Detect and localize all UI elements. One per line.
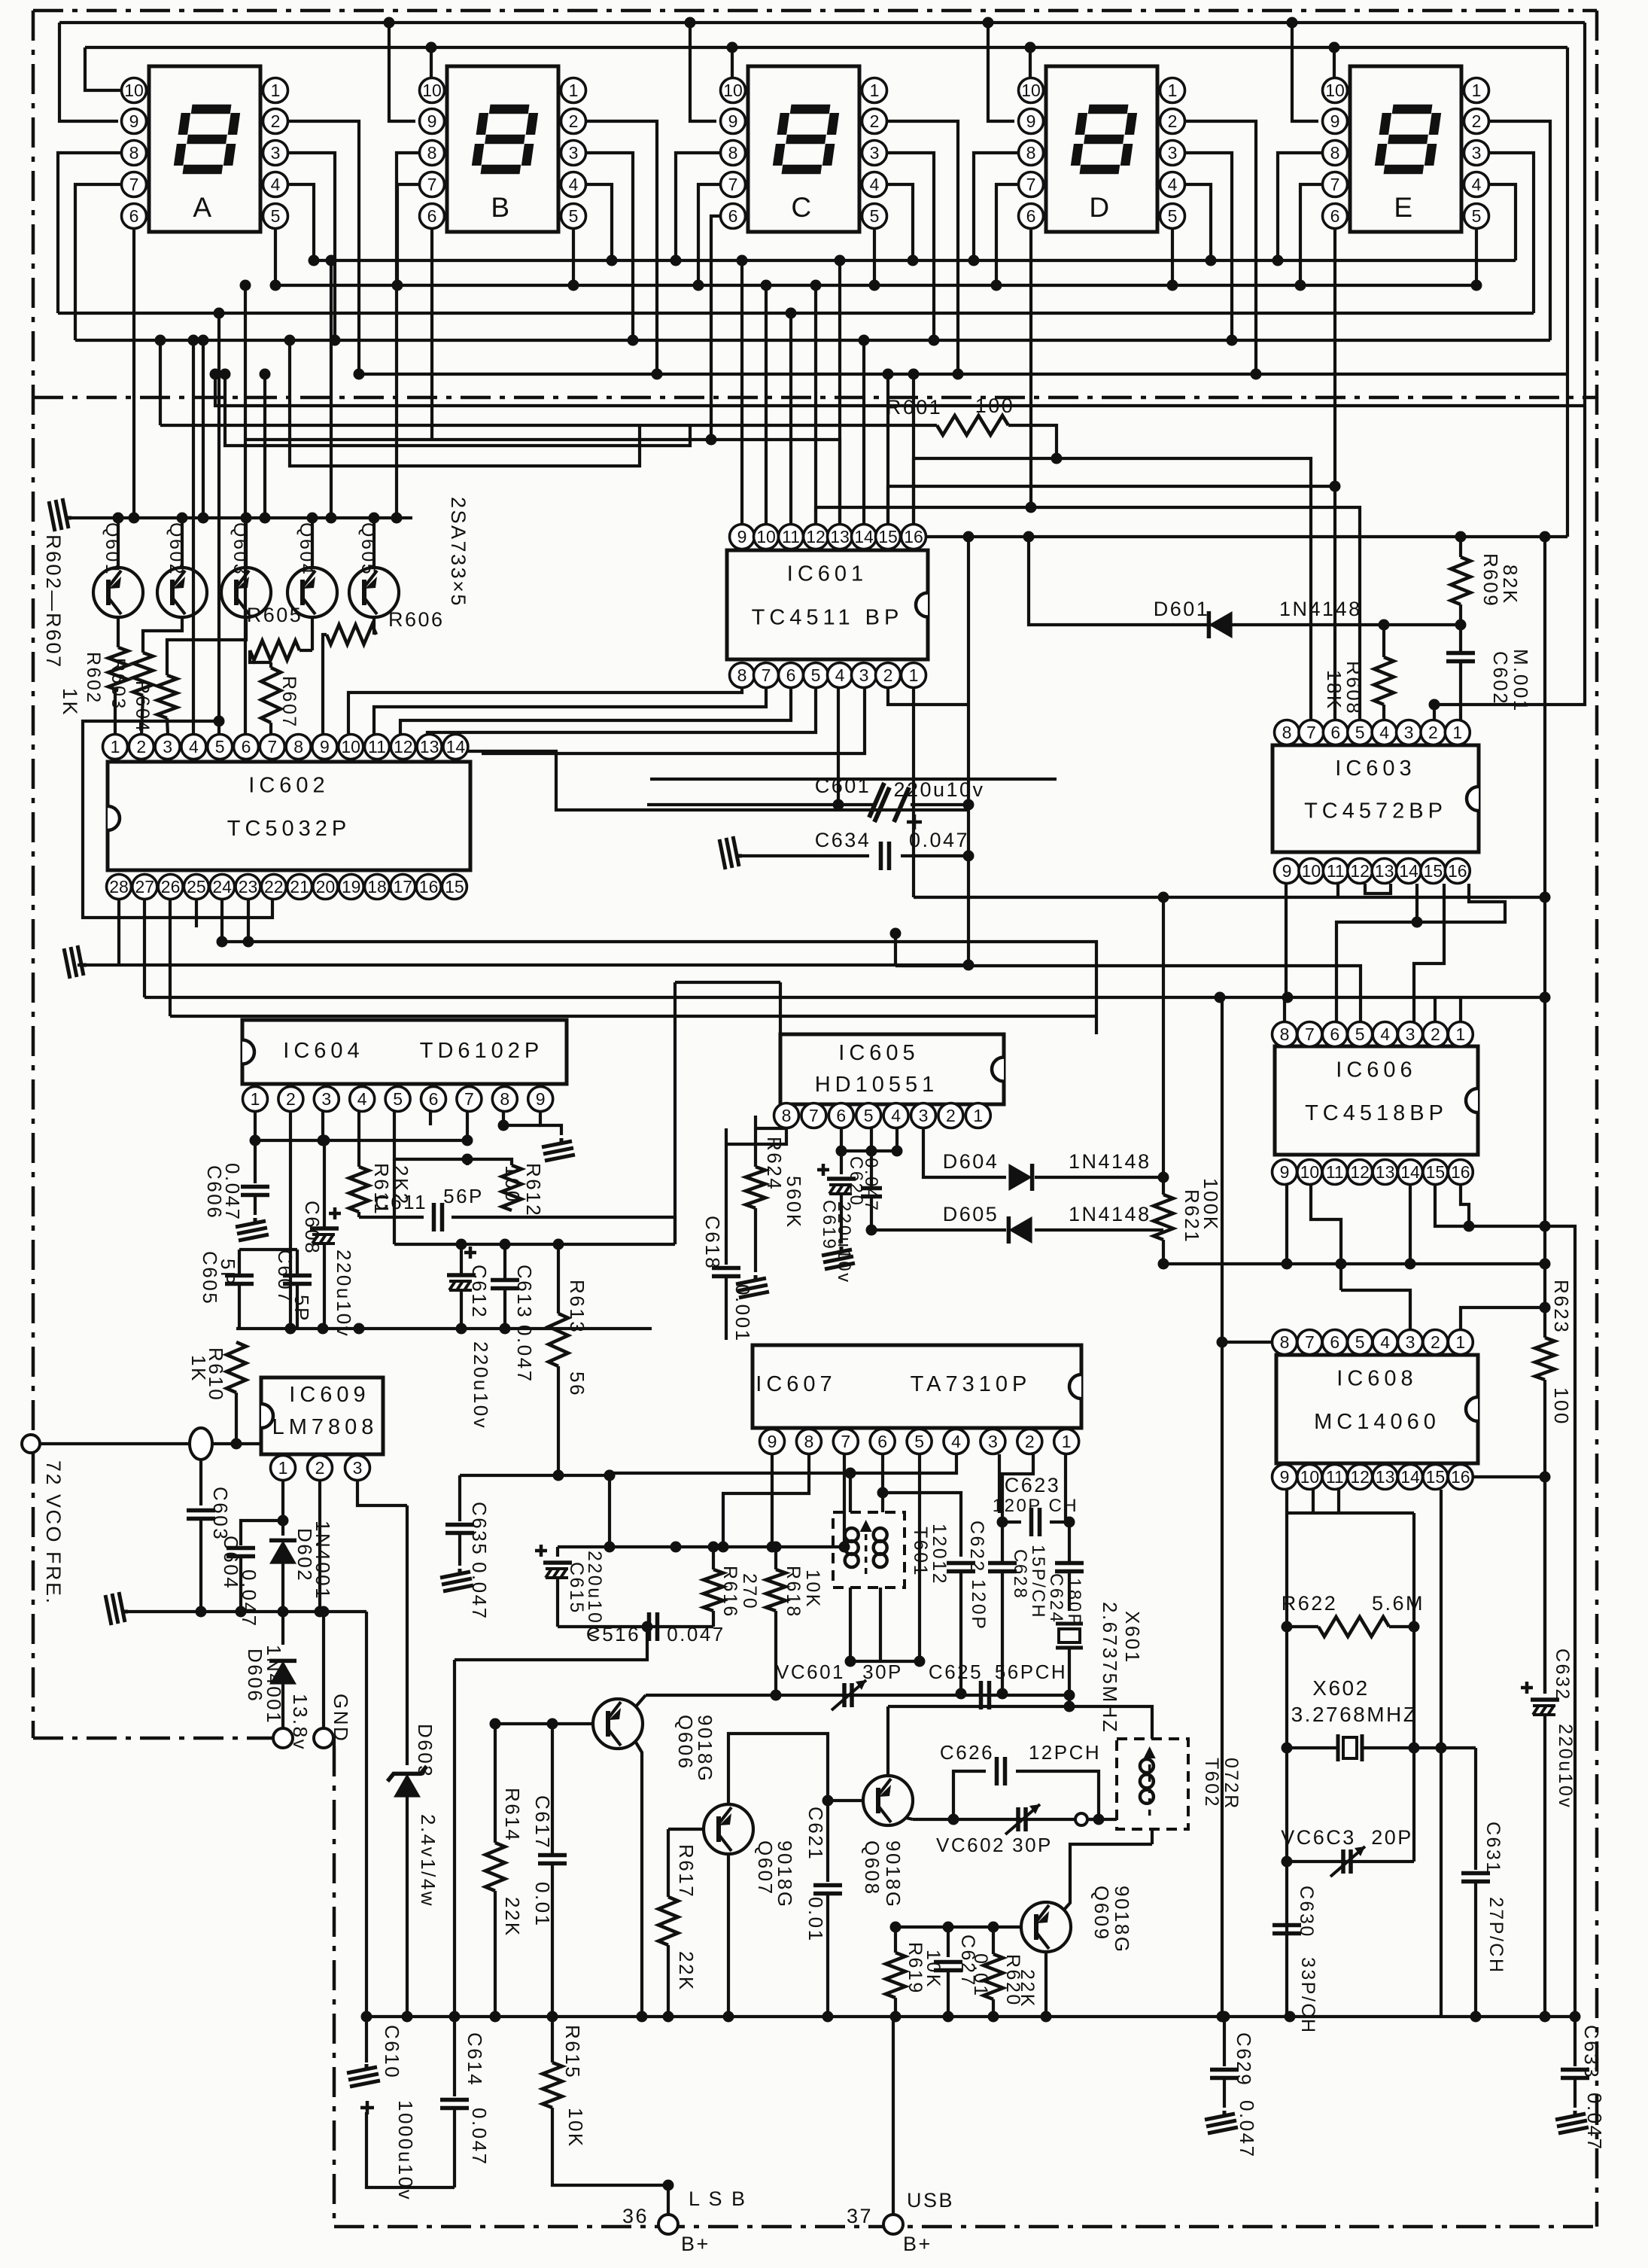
wire bus y452 [75,339,1550,342]
wire pin1 drop [254,1112,257,1183]
junction R616 top [708,1542,719,1553]
wire y592 run [225,374,690,446]
wire C632 bot [1543,1715,1546,2017]
junction y2055 x810b [604,1542,616,1553]
wire IC606 p2 up [1434,998,1437,1021]
junction y1192 x2053 [1540,892,1551,903]
junction R613 top [553,1239,564,1250]
svg-text:R602—R607: R602—R607 [42,534,65,669]
svg-text:15: 15 [1424,861,1443,881]
svg-text:10: 10 [723,81,743,100]
svg-text:28: 28 [109,877,129,897]
svg-text:5P: 5P [290,1295,313,1323]
IC U IC607 [753,1345,1081,1428]
svg-text:12PCH: 12PCH [1029,1741,1101,1764]
junction bus x2093 [1570,2011,1581,2023]
svg-text:13: 13 [1375,861,1394,881]
junction IC601 feed x1116 [835,255,846,266]
resistor R607 [261,668,281,723]
svg-text:6: 6 [1330,1024,1339,1044]
wire R605 join [299,649,312,652]
svg-text:C628: C628 [1010,1549,1030,1600]
svg-text:10: 10 [1021,81,1041,100]
svg-text:8: 8 [427,143,437,163]
wire C618 bot [725,1277,728,1340]
wire C633 drop [1574,2017,1577,2066]
svg-text:IC604: IC604 [283,1039,363,1063]
resistor R614 [485,1843,505,1891]
capacitor C632 [1531,1697,1559,1702]
resistor R610 [227,1342,246,1393]
svg-text:9: 9 [1330,111,1340,131]
resistor R616 [704,1569,723,1611]
wire R601 left [160,424,937,427]
svg-text:4: 4 [357,1089,367,1109]
svg-text:6: 6 [1330,723,1340,742]
capacitor C516 [647,1612,652,1641]
IC607 pin 5 [907,1429,932,1454]
svg-text:R602: R602 [83,652,104,705]
svg-text:2: 2 [286,1089,296,1109]
wire IC607 p3 drop [998,1454,1001,1513]
svg-text:3: 3 [988,1432,998,1451]
junction D604 R621 [1158,1172,1169,1183]
wire R603 to pin2 [141,696,143,735]
wire pin5 drop [870,1128,873,1188]
svg-text:100K: 100K [1200,1178,1222,1231]
svg-text:10: 10 [422,81,442,100]
svg-text:3: 3 [919,1106,929,1125]
junction D4 bus [1206,255,1217,266]
svg-text:14: 14 [1400,1467,1420,1487]
junction bus x658 [490,2011,501,2023]
wire C621 top [826,1801,829,1882]
svg-text:5: 5 [870,206,880,226]
svg-text:10K: 10K [802,1569,823,1609]
junction rail feed top x352 [260,369,271,380]
junction C627 top [943,1922,954,1933]
junction rail1 E [1287,17,1298,29]
IC U IC602 [108,762,470,870]
junction IC601 feed x1148 [859,335,870,346]
transistor Q606 [593,1699,643,1749]
svg-text:C631: C631 [1482,1822,1504,1874]
svg-text:220u10v: 220u10v [1555,1724,1576,1809]
svg-text:14: 14 [854,527,874,546]
junction y1960 x742 [553,1470,564,1481]
svg-text:14: 14 [1400,1162,1420,1182]
svg-text:C608: C608 [301,1201,324,1255]
junction R601 y609 [1051,453,1063,464]
wire IC606 p14 drop [1409,1185,1412,1264]
IC609 pin 1 [271,1456,296,1481]
IC605 pin 6 [829,1104,853,1128]
wire R614 bot [494,1891,497,2017]
wire R618 bot [774,1611,777,1648]
svg-text:23: 23 [239,877,258,897]
svg-text:7: 7 [841,1432,850,1451]
wire C612 top [460,1244,463,1274]
border outer right [1595,11,1599,2227]
svg-text:10: 10 [1300,1162,1320,1182]
junction y1192 x1546 [1158,892,1169,903]
junction rail2 D [1025,42,1036,53]
wire R624 link [756,1127,786,1130]
wire y2205 line [455,1627,647,1660]
junction pin1 2020 [278,1515,289,1527]
junction GND y2141 [318,1606,330,1618]
junction IC601 feed x1084 [810,280,822,291]
diode D604 [1008,1164,1032,1191]
junction y1765 x671 [500,1323,511,1335]
junction y1679 x1874 [1405,1259,1416,1270]
wire E pin5 drop [1475,228,1478,285]
junction C623 left [997,1517,1008,1528]
junction C8 bus [670,255,682,266]
IC602 notch [108,806,120,830]
svg-text:5: 5 [1472,206,1482,226]
wire D pin5 drop [1171,228,1174,285]
junction y619 left [284,335,296,346]
wire C620 bot [870,1197,873,1230]
svg-text:E: E [1394,192,1414,223]
wire x2053 mid [1543,1380,1546,1694]
wire B pin9 feed [389,23,415,121]
wire y646 to IC603 pin6 [888,485,1335,488]
junction y1515 x429 [318,1135,329,1146]
wire R608 bottom [1382,705,1385,720]
capacitor C620 [861,1186,882,1191]
wire A pin9 feed [59,23,118,121]
wire IC607 p7 drop [843,1454,846,1547]
junction bus x1260 [943,2011,954,2023]
capacitor C626 [995,1757,999,1785]
capacitor C603 [187,1508,215,1513]
junction IC601 feed x1214 [908,369,920,380]
svg-text:100: 100 [975,394,1015,417]
resistor R605 [250,641,299,660]
capacitor C607 [283,1274,312,1278]
svg-text:IC601: IC601 [787,562,868,586]
IC607 pin 4 [944,1429,968,1454]
wire D pin4 run [1184,184,1211,260]
junction rail feed x270 [198,513,209,524]
svg-text:22: 22 [264,877,284,897]
wire Q608 top lead [886,1706,889,1776]
junction D6 [1026,502,1037,513]
svg-text:16: 16 [419,877,439,897]
wire Q608 collector [906,1818,913,1819]
svg-text:9: 9 [129,111,139,131]
svg-text:0.01: 0.01 [804,1897,827,1943]
wire x604 drop [453,1660,456,2017]
junction rail Q601 [113,513,124,524]
wire y2161 [558,1625,713,1628]
wire C613 bot [503,1289,506,1329]
svg-text:36: 36 [622,2205,649,2227]
svg-text:IC609: IC609 [289,1383,369,1407]
ground C610 [347,2064,380,2087]
svg-text:13: 13 [830,527,850,546]
wire pin8 drop [726,1128,786,1144]
svg-text:0.047: 0.047 [1583,2093,1606,2151]
wire B pin5 drop [572,228,575,285]
svg-text:100: 100 [1550,1387,1573,1426]
wire IC608 p9 drop [1285,1490,1288,2017]
svg-text:33P/CH: 33P/CH [1297,1957,1318,2035]
wire IC608 p8 left [1222,1341,1272,1344]
svg-text:Q605: Q605 [357,522,379,576]
svg-text:6: 6 [1330,1332,1339,1352]
wire C634 line [742,854,869,857]
terminal 36 LSB [658,2215,678,2234]
junction rail1 C [685,17,696,29]
svg-text:0.047: 0.047 [221,1163,244,1222]
junction y1960 x810 [604,1470,616,1481]
svg-text:1: 1 [909,665,919,685]
svg-text:0.047: 0.047 [667,1623,725,1645]
junction B7 bus [392,280,403,291]
junction X602 left [1282,1743,1293,1754]
wire pin25 drop [195,899,198,927]
svg-text:1N4148: 1N4148 [1069,1150,1151,1173]
resistor R609 [1451,557,1470,604]
junction bus x1714 [1285,2011,1296,2023]
svg-text:L S B: L S B [689,2187,747,2210]
junction R622 right [1409,1621,1420,1633]
wire IC607 p6 drop [881,1454,884,1512]
wire C pin4 run [886,184,913,260]
svg-text:10: 10 [1302,861,1321,881]
wire D602 top [281,1521,284,1536]
wire A pin5 drop [274,228,277,285]
svg-text:2: 2 [946,1106,956,1125]
resistor R608 [1374,657,1394,705]
svg-text:3: 3 [163,737,172,757]
junction bus x1961 [1470,2011,1482,2023]
wire C pin2 run [886,121,958,374]
wire C601 line a [647,803,873,806]
border lower-left jog vertical [333,1746,336,2227]
wire C615 bot [556,1578,559,1627]
svg-text:TC4511 BP: TC4511 BP [752,606,904,630]
wire VC603 line [1287,1860,1414,1863]
svg-text:IC607: IC607 [756,1372,836,1396]
junction B3 bus [628,335,639,346]
svg-text:3.2768MHZ: 3.2768MHZ [1291,1703,1418,1726]
wire GND up [322,1612,325,1728]
svg-text:1N4148: 1N4148 [1069,1203,1151,1225]
svg-text:7: 7 [1305,1024,1315,1044]
svg-text:22K: 22K [1017,1969,1038,2008]
capacitor C622 [947,1561,975,1566]
svg-text:4: 4 [835,665,845,685]
wire R620 top [992,1927,995,1954]
wire pin3 drop [923,1128,1006,1177]
wire C629 drop [1223,2017,1226,2066]
junction y1765 x477 [354,1323,365,1335]
svg-text:C635: C635 [468,1502,491,1556]
junction y539 left [210,369,221,380]
junction C6 [706,434,717,446]
junction y1653 x671 [500,1239,511,1250]
svg-text:R618: R618 [783,1566,804,1618]
IC609 pin 2 [308,1456,333,1481]
svg-text:D603: D603 [414,1724,436,1778]
svg-text:3: 3 [1472,143,1482,163]
svg-text:11: 11 [1327,861,1345,881]
junction bus x604 [449,2011,461,2023]
junction y1529 x1192 [892,1146,903,1157]
svg-text:24: 24 [212,877,232,897]
wire R622 right [1389,1625,1414,1628]
svg-text:Q608: Q608 [861,1840,883,1896]
resistor R623 [1535,1338,1555,1380]
junction B2 bus [652,369,663,380]
wire IC601 feed x986 [740,260,743,525]
IC605 pin 1 [965,1104,990,1128]
svg-text:0.047: 0.047 [513,1325,536,1384]
wire Q605 emitter [372,518,376,568]
wire LSB up [667,2185,670,2215]
junction bus x968 [723,2011,734,2023]
wire B pin3 run [585,153,633,340]
wire Q606 collector [636,1695,646,1706]
junction IC602 feed x326 [240,280,251,291]
IC605 pin 2 [938,1104,963,1128]
resistor R619 [886,1953,905,1998]
svg-text:R605: R605 [247,604,303,626]
wire C624 mid [1068,1522,1071,1563]
IC607 pin 2 [1017,1429,1042,1454]
junction R622 left [1282,1621,1293,1633]
trimmer VC601 [842,1683,847,1707]
svg-text:15: 15 [1426,1467,1446,1487]
wire D pin6 drop [1029,228,1032,507]
capacitor C606 [241,1185,269,1189]
svg-text:2: 2 [271,111,281,131]
wire R613 bot [557,1366,560,1400]
wire T601 left bot [849,1588,852,1661]
wire E pin10 feed [1333,47,1336,78]
junction IC601 feed x986 [737,255,748,266]
svg-text:7: 7 [728,175,738,194]
trimmer VC603 [1341,1849,1345,1874]
wire R602 to pin1 [115,690,118,735]
wire pin23 drop [247,899,250,942]
junction pin24 [217,936,228,948]
junction y713 x1287 [963,531,975,543]
junction rail feed top x440 [326,255,337,266]
feedthrough oval [190,1428,212,1460]
svg-text:7: 7 [129,175,139,194]
wire top rail 1 [59,21,1585,24]
svg-text:14: 14 [446,737,466,757]
wire D601 line [1029,537,1461,625]
junction R615 LSB [663,2180,674,2191]
wire right margin vertical 2 [1566,47,1569,537]
junction D7 bus [991,280,1002,291]
svg-text:1: 1 [1062,1432,1072,1451]
IC609 pin 3 [345,1456,370,1481]
svg-text:9018G: 9018G [1111,1886,1133,1954]
wire A pin8 run [58,153,122,313]
resistor R620 [984,1954,1003,1999]
wire R604 to pin3 [167,718,168,735]
capacitor C611 [432,1203,436,1231]
junction bus x1320 [988,2011,999,2023]
IC U IC604 [242,1020,567,1084]
svg-text:3: 3 [1168,143,1178,163]
wire C635 top [458,1475,461,1521]
junction IC601 feed x1051 [786,308,797,319]
svg-text:6: 6 [836,1106,846,1125]
junction rail2 E [1329,42,1340,53]
svg-text:0.047: 0.047 [909,829,969,851]
junction y1325 x1621 [1215,992,1226,1003]
junction bus x1190 [890,2011,902,2023]
wire IC608 p16 right [1473,1475,1545,1478]
wire C608 bot [323,1244,326,1329]
wire IC606 p8 up [1283,997,1286,1021]
wire D pin8 run [974,153,1019,260]
junction IC601 feed x1018 [761,280,772,291]
C601 plus [907,814,922,830]
capacitor C627 [934,1960,962,1965]
junction R619 top [890,1922,902,1933]
wire supply y713 [926,535,1567,538]
wire R619 bot [894,1998,897,2017]
svg-text:R609: R609 [1479,553,1502,607]
wire C628 top [1001,1522,1004,1563]
wire IC603p16 net [1336,884,1505,1021]
wire IC601 feed x1148 [862,340,865,525]
svg-text:8: 8 [728,143,738,163]
wire R622 left [1287,1625,1318,1628]
capacitor C634 [879,842,883,870]
svg-text:2: 2 [315,1458,325,1478]
svg-text:4: 4 [1380,1024,1390,1044]
wire R624 top [754,1116,757,1167]
svg-text:9018G: 9018G [774,1840,796,1909]
resistor R621 [1154,1195,1173,1240]
junction R621 bot [1158,1259,1169,1270]
IC605 pin 5 [856,1104,881,1128]
ground left rail symbol [49,498,71,531]
wire C629 bot [1223,2078,1226,2108]
wire Q604 emitter [311,518,314,568]
svg-text:16: 16 [1451,1162,1470,1182]
junction rail Q605 [369,513,380,524]
wire IC601 feed x1116 [838,260,841,525]
svg-text:18: 18 [367,877,387,897]
svg-text:22K: 22K [675,1951,698,1992]
wire Q605 collector [372,617,376,635]
capacitor C633 [1561,2068,1589,2072]
wire pin12 left [814,507,817,525]
wire D604 right [1035,1176,1163,1179]
svg-text:5: 5 [864,1106,874,1125]
IC U IC609 [261,1378,383,1454]
wire x487 drop [365,1612,368,2017]
junction x1906 y936 [1429,699,1440,711]
svg-text:20: 20 [316,877,336,897]
wire R609 bottom [1459,604,1462,653]
wire C617 bot [551,1864,554,2017]
svg-text:1: 1 [870,81,880,100]
svg-text:C603: C603 [209,1487,232,1541]
wire A pin6 drop [132,228,135,518]
